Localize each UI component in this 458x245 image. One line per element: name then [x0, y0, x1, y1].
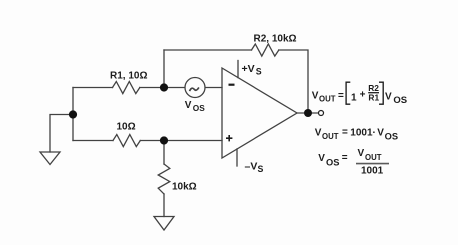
- svg-text:OUT: OUT: [322, 132, 339, 141]
- svg-text:=: =: [342, 127, 348, 138]
- op-amp plus sign: [226, 135, 232, 141]
- wire feedback vertical up: [163, 50, 165, 88]
- node junction bottom 10k: [160, 136, 168, 144]
- svg-text:S: S: [258, 164, 264, 174]
- svg-text:10Ω: 10Ω: [117, 122, 136, 133]
- wire 10ohm to op-amp noninverting input: [140, 140, 222, 142]
- svg-text:OUT: OUT: [319, 94, 336, 103]
- svg-text:S: S: [256, 66, 262, 76]
- svg-text:R2: R2: [368, 83, 379, 93]
- ground G2: [154, 217, 174, 231]
- svg-text:V: V: [312, 91, 319, 102]
- resistor R1: [113, 82, 140, 94]
- equation 3 VOS = VOUT/1001: [318, 148, 389, 177]
- svg-text:=: =: [342, 153, 348, 164]
- svg-text:R1, 10Ω: R1, 10Ω: [110, 71, 147, 82]
- wire bottom from rail to 10ohm resistor: [73, 140, 113, 142]
- op-amp minus sign: [229, 84, 235, 86]
- svg-text:OS: OS: [193, 103, 205, 113]
- wire 10k to ground: [163, 194, 165, 217]
- wire VOS to op-amp inverting input: [205, 87, 222, 89]
- svg-text:R1: R1: [368, 93, 379, 103]
- ground G1: [40, 152, 60, 165]
- svg-text:1001·: 1001·: [350, 127, 376, 138]
- svg-text:V: V: [185, 100, 192, 111]
- wire output apex to terminal: [297, 112, 317, 114]
- svg-text:OUT: OUT: [365, 153, 382, 162]
- label +VS: [242, 63, 262, 76]
- svg-text:R2, 10kΩ: R2, 10kΩ: [254, 34, 297, 45]
- equation 1 VOUT gain formula: [312, 82, 407, 106]
- wire -VS stub: [236, 149, 238, 166]
- wire +VS stub: [237, 61, 239, 78]
- svg-text:+: +: [360, 90, 366, 101]
- label -VS: [245, 161, 264, 175]
- resistor R2: [252, 44, 279, 56]
- svg-text:OS: OS: [393, 95, 407, 106]
- op-amp U1: [222, 68, 297, 158]
- node junction left rail ground: [69, 110, 77, 118]
- svg-text:OS: OS: [385, 132, 398, 142]
- label VOS source: [185, 100, 206, 113]
- svg-text:V: V: [358, 148, 365, 159]
- svg-text:1: 1: [351, 92, 357, 103]
- svg-text:10kΩ: 10kΩ: [172, 181, 197, 192]
- output open terminal: [319, 111, 324, 116]
- svg-text:–V: –V: [245, 161, 258, 173]
- node junction R1/feedback: [160, 83, 168, 91]
- svg-text:V: V: [315, 127, 322, 138]
- equation 2 VOUT = 1001 VOS: [315, 127, 398, 142]
- svg-text:V: V: [377, 127, 384, 138]
- wire feedback top rail to R2: [164, 49, 252, 51]
- svg-text:V: V: [385, 91, 392, 102]
- svg-text:+V: +V: [242, 63, 255, 75]
- wire R2 to output node: [279, 50, 308, 113]
- wire top input from left rail to R1: [73, 87, 113, 89]
- wire down to 10k resistor: [163, 141, 165, 165]
- VOS source circle: [185, 78, 205, 98]
- svg-text:1001: 1001: [361, 166, 384, 177]
- resistor 10ohm: [113, 135, 140, 147]
- svg-text:V: V: [318, 153, 325, 164]
- left rail wire: [72, 88, 74, 141]
- svg-text:OS: OS: [326, 157, 339, 167]
- wire ground branch left: [50, 115, 73, 153]
- VOS source tilde: [190, 88, 199, 90]
- node output junction: [304, 109, 312, 117]
- resistor 10k: [158, 164, 170, 194]
- wire R1 to VOS source: [140, 87, 185, 89]
- svg-text:=: =: [338, 90, 344, 101]
